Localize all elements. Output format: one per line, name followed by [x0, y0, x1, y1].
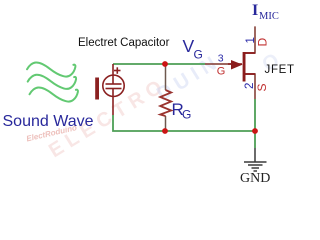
svg-text:Electret Capacitor: Electret Capacitor	[78, 37, 170, 49]
svg-text:I: I	[252, 2, 258, 19]
svg-text:S: S	[255, 83, 269, 91]
svg-text:Sound Wave: Sound Wave	[3, 113, 94, 130]
svg-text:JFET: JFET	[265, 64, 295, 76]
svg-text:G: G	[194, 48, 203, 62]
svg-text:G: G	[182, 108, 191, 122]
svg-text:MIC: MIC	[259, 11, 279, 22]
svg-text:D: D	[256, 38, 270, 47]
svg-text:3: 3	[218, 53, 224, 65]
svg-text:GND: GND	[240, 171, 270, 186]
svg-text:G: G	[217, 66, 226, 78]
